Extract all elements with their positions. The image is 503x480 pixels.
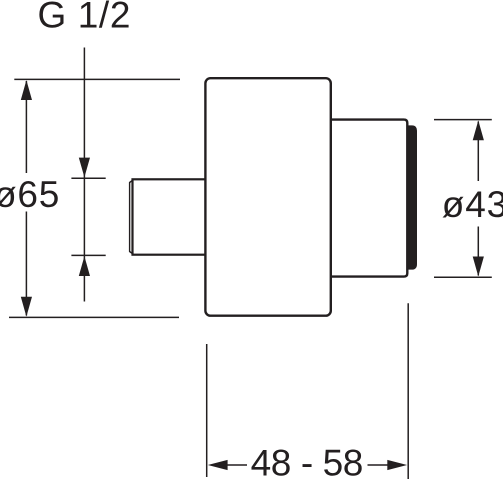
extension line ø43 top <box>434 119 492 121</box>
tick top (stub OD upper) <box>71 177 105 179</box>
extension line ø43 bottom <box>434 276 492 278</box>
arrow ø43 up <box>473 120 484 140</box>
dimension line ø65 <box>25 81 27 316</box>
thread chamfer line on stub <box>130 180 133 254</box>
svg-text:ø65: ø65 <box>0 174 60 215</box>
arrow down on leader <box>79 158 90 178</box>
cap ring (dark seal edge) <box>408 125 417 269</box>
arrow 48-58 left <box>208 460 228 470</box>
arrow 48-58 right <box>387 460 407 470</box>
arrow ø65 up <box>21 80 32 100</box>
dimension line 48-58 right segment <box>368 464 388 466</box>
arrow ø65 down <box>21 297 32 317</box>
extension line ø65 bottom <box>9 316 179 318</box>
leader line from G 1/2 <box>83 48 85 302</box>
svg-text:48 - 58: 48 - 58 <box>251 443 363 480</box>
extension line ø65 top <box>14 78 180 80</box>
extension line 48-58 right <box>407 303 409 479</box>
main body ø65 <box>205 78 330 316</box>
dimension line ø43 <box>477 122 479 276</box>
extension line 48-58 left <box>206 344 208 477</box>
left inlet stub (G 1/2 connection) <box>133 179 211 254</box>
svg-text:ø43: ø43 <box>442 184 503 225</box>
right cylinder (ø43 escutcheon) <box>330 120 408 277</box>
arrow up on leader <box>79 256 90 276</box>
tick bottom (stub OD lower) <box>71 254 105 256</box>
arrow ø43 down <box>473 257 484 277</box>
dimension line 48-58 left segment <box>227 464 248 466</box>
svg-text:G 1/2: G 1/2 <box>38 0 132 35</box>
